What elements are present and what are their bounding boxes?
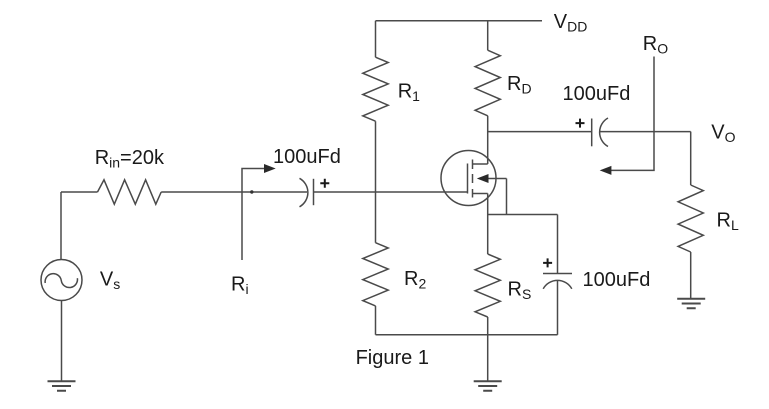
wire bottom rail [376, 334, 558, 336]
resistor RD [475, 50, 500, 116]
plus marker at C2 [576, 119, 585, 128]
resistor Rin (horizontal zigzag) [98, 180, 162, 204]
capacitor C2 output 100uFd (straight plate + curved plate) [592, 118, 608, 147]
node Ri input-resistance indicator arrow [242, 164, 276, 260]
wire RS bottom to bottom rail [487, 317, 489, 335]
wire RL bottom to ground [690, 252, 692, 299]
svg-text:100uFd: 100uFd [563, 83, 631, 105]
svg-text:Vs: Vs [100, 268, 120, 292]
wire main input line from source to gate [61, 191, 468, 193]
ground (below Vs) [48, 381, 76, 390]
node Ro output-resistance indicator arrow [600, 57, 654, 175]
wire R1/R2 bias rail vertical segments [375, 21, 377, 335]
wire drain rail vertical segments [487, 21, 489, 164]
svg-text:Ri: Ri [231, 274, 249, 298]
plus marker at C1 [320, 179, 329, 188]
svg-text:RS: RS [508, 279, 532, 303]
capacitor CS bypass 100uFd (horizontal plates) [543, 215, 572, 335]
svg-text:100uFd: 100uFd [583, 269, 651, 291]
svg-text:R1: R1 [398, 81, 420, 105]
svg-text:VO: VO [711, 122, 735, 146]
svg-text:RD: RD [507, 73, 532, 97]
plus marker at CS [543, 258, 552, 267]
svg-text:VDD: VDD [554, 11, 588, 35]
wire RL branch vertical [690, 132, 692, 185]
wire drain node to output cap [488, 131, 591, 133]
voltage source Vs [41, 260, 82, 301]
wire left vertical to Vs [60, 192, 62, 259]
wire output node to RL [600, 131, 691, 133]
ground (below RS) [474, 381, 502, 390]
svg-text:RO: RO [643, 33, 668, 57]
resistor RS [475, 254, 500, 317]
resistor R2 [363, 243, 388, 306]
svg-text:Rin=20k: Rin=20k [95, 147, 165, 171]
resistor R1 [363, 57, 388, 121]
ground (below RL) [677, 299, 705, 308]
wire top VDD rail [376, 20, 543, 22]
svg-text:R2: R2 [404, 268, 426, 292]
svg-text:Figure 1: Figure 1 [356, 347, 429, 369]
wire below Vs [61, 301, 63, 382]
resistor RL [678, 185, 703, 252]
svg-text:RL: RL [717, 210, 739, 234]
wire source node down and to bypass branch [488, 194, 558, 255]
transistor Q1 n-channel MOSFET [441, 151, 507, 215]
capacitor C1 input 100uFd (curved plate + straight plate) [300, 178, 314, 207]
node junction dot on input wire [250, 190, 253, 193]
svg-text:100uFd: 100uFd [273, 146, 341, 168]
wire ground stem below RS [487, 335, 489, 381]
